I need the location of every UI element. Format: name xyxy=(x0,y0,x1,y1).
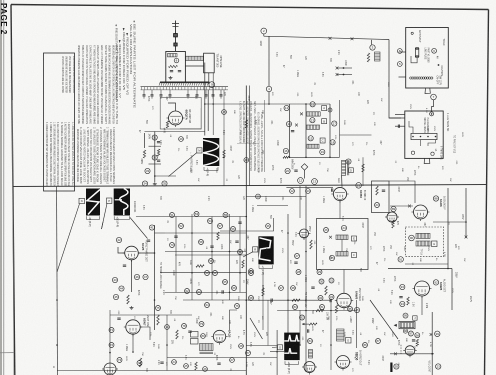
cluster callout 81 xyxy=(320,305,325,310)
wire crossing mark 1 xyxy=(329,37,332,40)
terminal feed wire lower xyxy=(395,125,405,127)
sync cluster callout 57 xyxy=(218,224,223,229)
sound in xmark xyxy=(408,205,411,208)
IF strip vertical bus right xyxy=(329,104,331,157)
terminal feed wire upper xyxy=(395,114,405,116)
waveform W4 callout xyxy=(249,269,254,274)
horiz callout 87 xyxy=(376,339,381,344)
vert osc callout 73 xyxy=(117,358,122,363)
vert pot callout xyxy=(201,334,206,339)
AC box left stub upper xyxy=(399,51,406,53)
IF trimmer box 3 xyxy=(320,138,325,143)
AC box left stub lower xyxy=(399,76,406,78)
sync cluster callout 70 xyxy=(170,243,175,248)
junction callout 4 xyxy=(266,86,271,91)
bottom tube partial V12 xyxy=(102,363,118,375)
IF tuning arrows 1 xyxy=(300,113,303,116)
chain ground xyxy=(153,182,157,186)
tube V13 partial xyxy=(302,362,317,375)
vert out callout 76 xyxy=(235,304,240,309)
tube V16 6T8 audio out xyxy=(403,346,417,358)
bypass capacitor C4 xyxy=(151,90,154,99)
vert osc capacitor C50 xyxy=(117,317,120,319)
horiz callout 86 xyxy=(363,343,368,348)
sound callout 99 xyxy=(435,331,440,336)
IF decoupler diamond xyxy=(301,164,308,171)
cluster callout 83 xyxy=(293,305,298,310)
waveform W3 pointer line xyxy=(102,203,108,229)
extra callout r3 xyxy=(306,189,311,194)
wire junction drop xyxy=(268,36,270,86)
sound callout xmark xyxy=(430,333,433,336)
tube V7 labels xyxy=(304,292,351,323)
terminal lug eyelet left xyxy=(411,151,414,154)
AC box pilot hole xyxy=(411,32,413,34)
bottom strip capacitor a xyxy=(217,362,220,364)
test point callout 33 xyxy=(145,168,150,173)
antenna terminal callout lower xyxy=(397,62,402,67)
quad trimmer box xyxy=(432,241,438,247)
phase det callout 42 xyxy=(116,237,121,242)
test point callout 32 xyxy=(152,155,157,160)
IF callout 18 xyxy=(330,140,335,145)
sound if input callout xyxy=(391,206,396,211)
transformer T4 primary xyxy=(342,160,346,175)
vert blocking transformer xyxy=(200,344,214,351)
scan fold line xyxy=(3,0,5,375)
sync ladder wire y272 xyxy=(160,272,246,274)
scan edge shadow strip xyxy=(0,0,2,375)
center wire y196 xyxy=(246,196,306,198)
sync cluster capacitor C35 xyxy=(221,290,223,293)
wire mixer down xyxy=(208,73,210,84)
bottom strip callout b xyxy=(184,364,189,369)
box callout 28 xyxy=(296,270,301,275)
center wire y310 xyxy=(277,310,356,312)
tube V5 6CB6 xyxy=(331,187,348,202)
capacitor C60 xyxy=(307,329,309,332)
wire junction dots xyxy=(56,103,467,354)
cluster callout 82 xyxy=(300,315,305,320)
quad coil L30 xyxy=(416,233,430,238)
sync cluster callout 69 xyxy=(238,250,243,255)
notes box numbered text xyxy=(45,122,74,187)
horiz diagonal wire2 xyxy=(250,318,263,339)
sync vertical x212 xyxy=(211,217,213,301)
chassis shield bus xyxy=(159,82,210,85)
terminal feed capacitor xyxy=(397,125,399,128)
notes box border xyxy=(44,53,75,191)
audio caps xyxy=(399,296,402,298)
terminal strip wires xyxy=(409,121,436,146)
vert out callout 79 xyxy=(199,322,204,327)
IF callout 17 xyxy=(332,121,337,126)
horiz callout 85 xyxy=(348,307,353,312)
bypass capacitor C7 xyxy=(187,90,190,99)
sync cluster resistor R30 xyxy=(217,232,219,240)
phase det capacitor C30 xyxy=(147,239,150,241)
sync cluster callout 65 xyxy=(223,280,228,285)
sync cluster callout 63 xyxy=(197,290,202,295)
section vertical bus x249 xyxy=(248,86,250,187)
capacitor C13 xyxy=(157,159,160,161)
center box upper corner xyxy=(220,218,274,231)
section vertical bus x246 xyxy=(245,86,247,375)
peaking coil L3 xyxy=(375,52,381,61)
wire AGC vertical xyxy=(207,90,209,131)
extra resistor RB xyxy=(245,120,247,128)
sync cluster callout 61 xyxy=(213,271,218,276)
wire callout chain xyxy=(149,132,162,183)
waveform W5 feed wire xyxy=(270,351,284,353)
tube V8 6BQ6 xyxy=(335,356,352,371)
transformer T4 callout xyxy=(346,159,351,164)
box trimmer 1 xyxy=(352,236,357,241)
sync ladder wire y216 xyxy=(136,216,246,218)
sound takeoff components xyxy=(336,67,352,76)
terminal feed wire mid xyxy=(389,117,405,119)
sync cluster callout 54 xyxy=(208,219,213,224)
bottom strip capacitor b xyxy=(160,361,163,363)
shield bus lower band xyxy=(141,87,229,90)
vert size pot boxes xyxy=(191,332,199,345)
sync vertical x240 xyxy=(239,217,241,293)
IF coupling cap 2 xyxy=(294,169,297,171)
terminal solder point xyxy=(430,112,434,116)
sync cluster resistor R31 xyxy=(242,260,244,268)
phase det capacitor C31 xyxy=(123,264,126,266)
center wire y205 xyxy=(257,205,288,207)
left border scan double xyxy=(12,100,14,375)
vert wire bus xyxy=(167,357,246,359)
quad box callout below xyxy=(398,257,403,262)
sync ladder wire y251 xyxy=(165,251,246,253)
waveform photo W2 xyxy=(86,189,100,216)
phase det wire in xyxy=(118,247,125,253)
sync cluster callout 64 xyxy=(205,303,210,308)
vert out callout 78 xyxy=(182,324,187,329)
waveform photo W5 xyxy=(284,333,300,361)
resistor R60 xyxy=(309,323,317,325)
terminal wire up xyxy=(432,100,434,112)
left margin fold line xyxy=(0,352,14,354)
box callout 29 xyxy=(317,270,322,275)
sync cluster callout 58 xyxy=(199,240,204,245)
waveform W5 left wire xyxy=(276,330,278,375)
box coil callout 2 xyxy=(329,255,334,260)
tube V1 6BQ7A xyxy=(167,111,185,127)
IF wire y135 xyxy=(340,134,372,136)
extra callout r2 xyxy=(290,189,295,194)
line fuse F1 xyxy=(415,47,418,57)
tube V7 callout xyxy=(354,307,359,312)
RF enclosure box xyxy=(160,98,201,130)
vert labels xyxy=(171,330,245,361)
wire tuner output vertical xyxy=(204,63,206,136)
sync cluster capacitor C33 xyxy=(174,235,177,237)
notes bullet list xyxy=(115,20,137,108)
ratio coil callouts xyxy=(403,313,417,320)
IF coil T3 callout xyxy=(308,136,313,141)
box resistor R40 xyxy=(310,240,312,249)
section divider horizontal xyxy=(14,185,487,187)
sound callout 100 xyxy=(436,364,441,369)
phase det callout 46 xyxy=(134,274,139,279)
resistor R3 xyxy=(157,149,159,156)
tuner input coil L1 xyxy=(168,54,178,57)
test point callout 35 xyxy=(162,181,167,186)
IF transformer L5 xyxy=(307,125,320,129)
sync cluster callout 53 xyxy=(194,212,199,217)
sync cluster callout 52 xyxy=(179,224,184,229)
tube V14 6AU6 sound if xyxy=(412,205,430,221)
IF trimmer box 2 xyxy=(322,119,327,124)
phase det ground xyxy=(130,306,134,310)
extra capacitor CB xyxy=(210,245,213,247)
sound feed wire xyxy=(389,181,415,203)
sync cluster wire E xyxy=(229,214,231,300)
vert transformer core xyxy=(200,352,214,353)
extra resistor RA xyxy=(223,150,225,158)
horiz vertical wire xyxy=(330,300,332,370)
extra callout r1 xyxy=(256,194,261,199)
vert section vertical x110 xyxy=(109,310,111,363)
quad coil callout xyxy=(409,235,415,241)
test point callout 34 xyxy=(142,181,147,186)
sound vertical bus right xyxy=(465,188,468,238)
extra resistor RD xyxy=(316,309,324,311)
capacitor C2 xyxy=(178,70,181,72)
box coil L10 callout xyxy=(341,225,346,230)
ratio coil box xyxy=(399,322,415,329)
vert osc resistor R50 xyxy=(157,315,159,325)
notes paragraph block xyxy=(77,45,119,124)
phase det callout 47 xyxy=(143,274,148,279)
box callout 26 xyxy=(324,228,329,233)
bypass capacitor C6 xyxy=(169,90,172,99)
audio dashed wire xyxy=(400,345,402,354)
phase det callout 45 xyxy=(113,294,118,299)
tube V5 wire xyxy=(341,175,343,186)
IF vertical x339 xyxy=(339,100,341,157)
wire grid return xyxy=(144,133,146,148)
AC interlock box xyxy=(406,28,449,89)
tube V1 heater callout xyxy=(174,58,179,63)
IF strip vertical bus left xyxy=(289,104,291,157)
wire junction lower xyxy=(268,92,270,104)
sync cluster wire B xyxy=(175,254,246,256)
AGC junction callout xyxy=(209,82,215,88)
IF coupling capacitor xyxy=(291,130,294,132)
box resistor R41 xyxy=(325,286,327,295)
peaking coil cluster callout xyxy=(370,45,375,50)
phase det callout 44 xyxy=(119,286,124,291)
horiz coil L21 xyxy=(337,329,345,341)
bypass capacitor C11 xyxy=(220,90,223,99)
center vertical x263 xyxy=(262,272,264,330)
on-off switch coil xyxy=(410,77,433,79)
sync cluster callout 56 xyxy=(231,227,236,232)
sync cluster callout 55 xyxy=(223,213,228,218)
sync ladder wire y292 xyxy=(165,291,246,293)
resistor R4 xyxy=(143,150,145,158)
phase det callout 41 xyxy=(149,225,154,230)
sync section box xyxy=(372,181,390,213)
waveform W5 probe tag xyxy=(278,345,283,350)
sound section wire y264 xyxy=(405,263,448,265)
horiz trimmer box xyxy=(346,338,352,344)
box callout 31 xyxy=(329,278,334,283)
IF B+ bus xyxy=(289,156,340,158)
audio out wire xyxy=(390,353,434,355)
arrow into grid xyxy=(302,323,309,325)
extra capacitor CA xyxy=(270,299,272,302)
phase det vertical wire xyxy=(154,225,156,330)
AC box mounting tab xyxy=(425,88,430,94)
waveform W4 probe tag xyxy=(253,247,258,252)
IF stage callout 12 xyxy=(284,105,289,110)
quad coil dashed box xyxy=(405,227,443,256)
tuner box xyxy=(166,52,186,83)
sub-divider wire y187 xyxy=(286,187,333,189)
extra callout r9 xyxy=(222,110,227,115)
fuse callout xyxy=(432,48,437,53)
box capacitor C40 xyxy=(294,261,297,263)
extra callout r10 xyxy=(179,137,184,142)
wire tuner to mixer xyxy=(186,65,204,67)
audio tube wire xyxy=(421,296,423,315)
audio labels xyxy=(412,302,428,308)
terminal strip xyxy=(411,133,437,139)
section divider vertical xyxy=(57,186,58,375)
terminal board box xyxy=(405,111,443,158)
audio out wire cross xyxy=(394,352,397,355)
border frame right xyxy=(485,10,489,375)
sync cluster callout 62 xyxy=(185,289,190,294)
waveform W3 pointer line2 xyxy=(102,222,104,229)
border frame left xyxy=(11,5,15,375)
vert out capacitor C51 xyxy=(188,330,191,332)
tube V5 plate wire xyxy=(339,201,341,219)
tube V7 wire xyxy=(343,270,345,294)
sync cluster callout 60 xyxy=(205,271,210,276)
phase det wire plate xyxy=(138,252,154,254)
waveform W2 probe tag xyxy=(79,198,84,203)
waveform W2 bracket xyxy=(87,216,100,219)
capacitor C20 xyxy=(382,189,385,191)
box callout 32 xyxy=(318,296,323,301)
phase det callout 43 xyxy=(112,277,117,282)
bottom strip callout c xyxy=(203,367,208,372)
ratio det components xyxy=(403,329,420,346)
IF coil T1 callout xyxy=(310,102,315,107)
waveform W3 probe tag xyxy=(107,198,112,203)
tube V7 grid components xyxy=(330,299,338,313)
sync ladder wire y233b xyxy=(155,232,166,234)
bottom wire y345 xyxy=(246,345,277,347)
center vertical x300 xyxy=(299,186,301,218)
box coil L10 xyxy=(336,235,348,240)
bottom strip resistor a xyxy=(139,358,141,367)
video section box xyxy=(317,219,369,270)
ratio coil arrow xyxy=(394,324,397,327)
bottom strip wire xyxy=(109,363,111,375)
transformer trimmer box xyxy=(349,168,354,173)
waveform W3 bracket xyxy=(114,216,129,219)
vert wire up xyxy=(230,310,238,330)
terminal lug eyelet right xyxy=(431,152,434,155)
vert section wire y370 xyxy=(57,370,246,372)
antenna mast xyxy=(172,21,179,52)
link coupling coil L2 xyxy=(186,56,204,60)
bypass capacitor C8 xyxy=(196,90,199,99)
sound vertical bus xyxy=(447,188,449,269)
tuner ground xyxy=(169,76,173,80)
agc wire y176 xyxy=(155,175,176,177)
IF stage callout 16 xyxy=(283,148,288,153)
tube V7 6AW8 video xyxy=(335,293,353,309)
box capacitor C41 xyxy=(311,286,314,288)
bottom strip callout d xyxy=(230,358,235,363)
center vertical wire 1 xyxy=(287,214,289,346)
box coil L11 xyxy=(336,252,348,257)
IF trimmer box 1 xyxy=(322,106,327,111)
extra resistor RC xyxy=(292,299,300,301)
tuner drop wire x213 xyxy=(212,73,214,135)
sync cluster capacitor C34 xyxy=(235,240,238,242)
sound junction dot xyxy=(431,353,433,355)
video signal wire xyxy=(264,36,389,39)
sync cluster wire D xyxy=(191,214,193,300)
IF tuning arrows 2 xyxy=(295,124,298,127)
tube V2 1st IF pin callout xyxy=(298,178,304,184)
vert out resistor R51 xyxy=(176,330,178,339)
IF resistor extra xyxy=(362,164,364,172)
bottom strip wire2 xyxy=(246,357,277,359)
AC wiring xyxy=(411,56,417,63)
waveform photo W3 xyxy=(114,189,130,216)
sound if resistor R70 xyxy=(392,220,394,228)
bypass capacitor C10 xyxy=(212,90,215,99)
sound section wire y222 xyxy=(433,221,466,223)
vert section wire y315 xyxy=(110,314,192,316)
tuner drop wire x221 xyxy=(223,90,225,186)
IF top wire y104 xyxy=(269,103,330,105)
antenna terminal callout upper xyxy=(397,49,402,54)
notes numbered items right xyxy=(76,127,115,185)
sync cluster wire A xyxy=(165,232,246,234)
bottom strip resistor b xyxy=(195,362,197,370)
sync vertical x176 xyxy=(175,217,177,293)
capacitor C1 xyxy=(170,70,173,72)
cluster callout 84 xyxy=(308,339,313,344)
transformer T4 core xyxy=(347,160,349,175)
resistor R6 xyxy=(376,186,378,195)
vert osc wire xyxy=(132,335,134,353)
audio callout 94 xyxy=(400,301,405,306)
wire crossing mark 2 xyxy=(351,37,354,40)
tube V9 6CB6 phase det xyxy=(123,246,141,262)
bold speaker mark xyxy=(390,363,392,373)
AC junction dot xyxy=(438,64,440,66)
quad coil L31 xyxy=(416,241,430,246)
tube V1 plate wire xyxy=(168,103,176,111)
IF stage callout 14 xyxy=(286,121,291,126)
extra resistor RE xyxy=(262,288,264,296)
vert osc labels xyxy=(125,342,154,351)
sync cluster labels xyxy=(178,244,248,285)
waveform W5 bracket xyxy=(285,361,299,364)
